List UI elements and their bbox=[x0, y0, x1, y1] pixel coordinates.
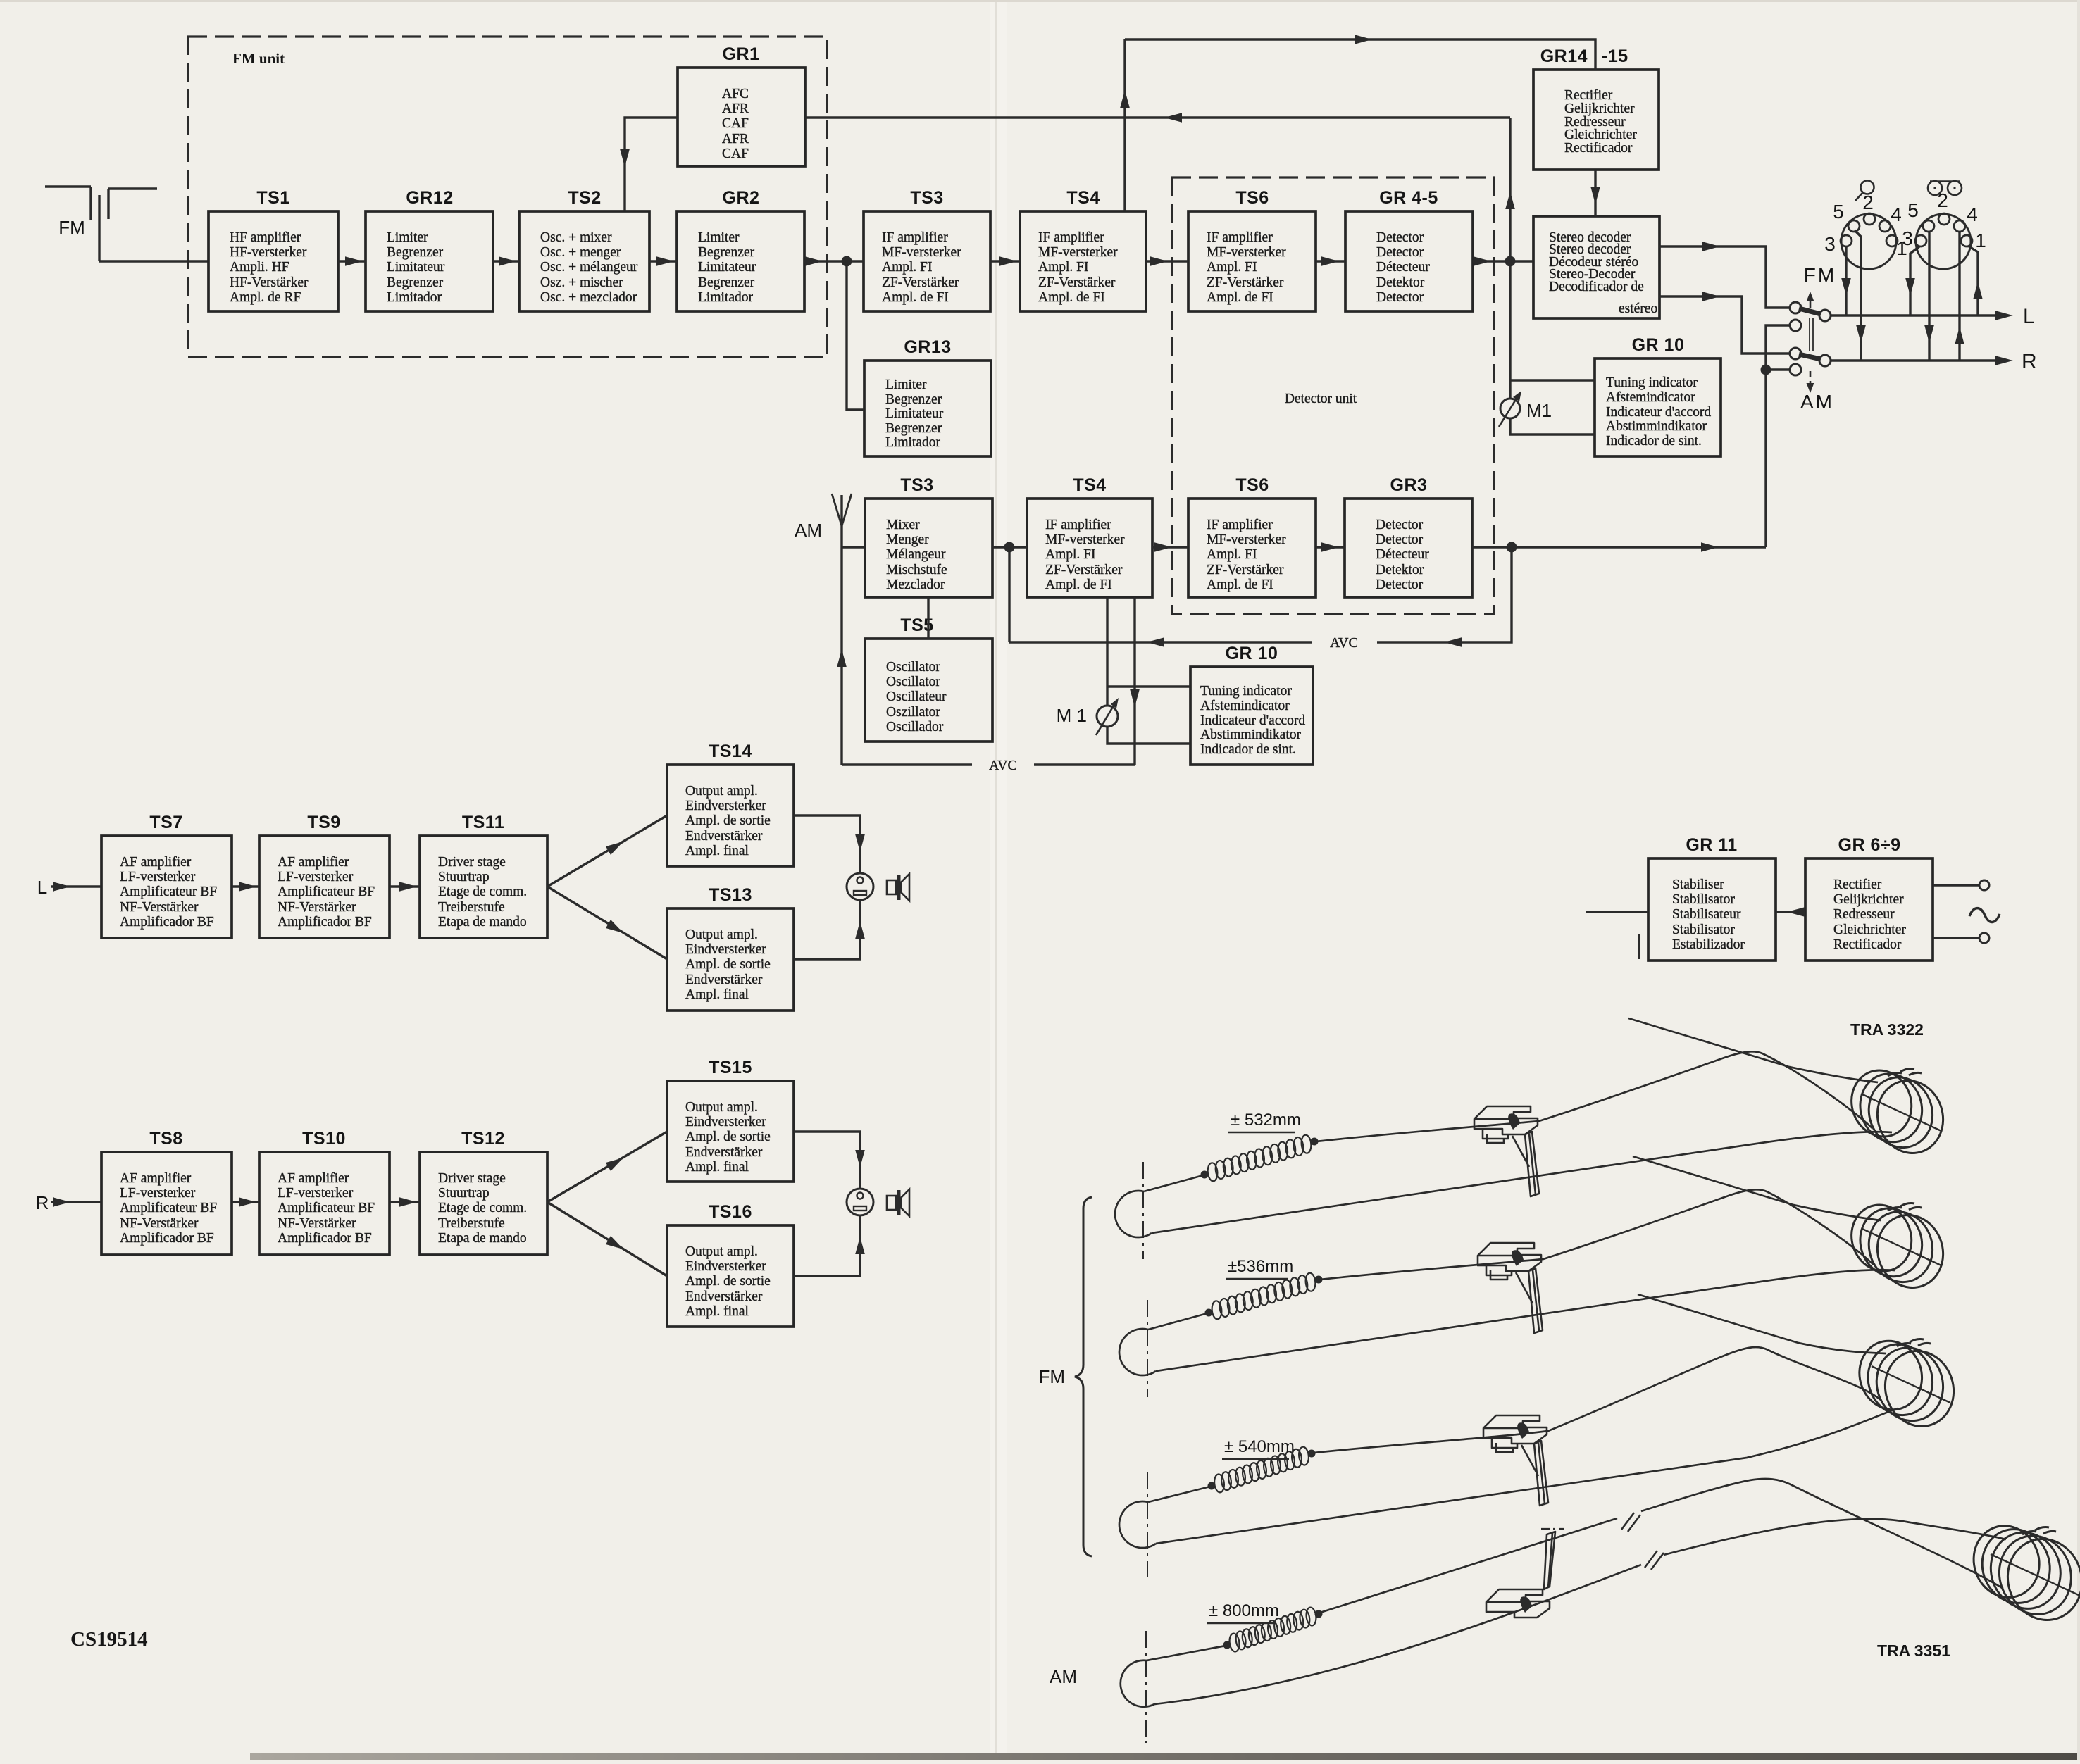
phono pickup icon bbox=[1855, 181, 1874, 201]
block TS5 bbox=[865, 615, 992, 742]
svg-text:HF amplifier: HF amplifier bbox=[230, 230, 301, 245]
Detector unit dashed enclosure bbox=[1172, 177, 1494, 614]
wire stereo decoder R output to switch bbox=[1659, 292, 1791, 354]
R input bbox=[36, 1192, 101, 1213]
antenna 2 (536mm) wire loop end bbox=[1119, 1329, 1156, 1375]
svg-text:Limitateur: Limitateur bbox=[387, 260, 445, 275]
svg-text:Gleichrichter: Gleichrichter bbox=[1833, 922, 1906, 937]
svg-text:Estabilizador: Estabilizador bbox=[1672, 937, 1745, 952]
svg-text:Osc. + mélangeur: Osc. + mélangeur bbox=[540, 260, 638, 275]
svg-text:Ampl. FI: Ampl. FI bbox=[1207, 547, 1257, 562]
antenna 2 (536mm) centre line bbox=[1147, 1300, 1148, 1397]
wire GR12 to TS2 bbox=[493, 256, 519, 266]
svg-text:AFC: AFC bbox=[722, 87, 749, 101]
svg-text:Detector: Detector bbox=[1376, 230, 1424, 245]
FM/AM mode switch bbox=[1790, 264, 1836, 413]
svg-text:Ampl. de FI: Ampl. de FI bbox=[1207, 577, 1273, 592]
svg-text:Stabilisator: Stabilisator bbox=[1672, 892, 1735, 907]
svg-text:AFR: AFR bbox=[722, 132, 749, 146]
wire TS7 to TS9 bbox=[232, 882, 259, 892]
svg-text:3: 3 bbox=[1824, 233, 1836, 255]
wire TS12 to TS16 bbox=[547, 1202, 667, 1276]
svg-text:CAF: CAF bbox=[722, 146, 749, 161]
svg-text:AVC: AVC bbox=[1330, 635, 1358, 651]
svg-text:Begrenzer: Begrenzer bbox=[885, 421, 942, 436]
wire GR3 output with node bbox=[1472, 542, 1766, 553]
svg-text:GR 4-5: GR 4-5 bbox=[1379, 188, 1438, 208]
svg-text:FM: FM bbox=[1804, 264, 1836, 286]
svg-text:Begrenzer: Begrenzer bbox=[387, 275, 444, 290]
block GR3 bbox=[1345, 475, 1472, 597]
svg-text:Ampl. final: Ampl. final bbox=[685, 844, 749, 858]
svg-text:Etage de comm.: Etage de comm. bbox=[438, 1201, 527, 1215]
block TS13 bbox=[667, 885, 794, 1011]
svg-text:TS6: TS6 bbox=[1235, 188, 1269, 208]
svg-text:LF-versterker: LF-versterker bbox=[120, 870, 196, 884]
wires M1 to GR10 FM bbox=[1510, 380, 1595, 434]
svg-text:NF-Verstärker: NF-Verstärker bbox=[120, 1216, 199, 1231]
svg-text:Ampl. FI: Ampl. FI bbox=[1207, 260, 1257, 275]
AFC feedback line to GR1 bbox=[805, 113, 1515, 261]
svg-text:TS8: TS8 bbox=[149, 1129, 182, 1149]
svg-text:TS7: TS7 bbox=[149, 813, 182, 832]
svg-text:Output ampl.: Output ampl. bbox=[685, 784, 758, 799]
block GR2 bbox=[677, 188, 804, 311]
svg-text:Ampl. FI: Ampl. FI bbox=[882, 260, 933, 275]
svg-text:IF amplifier: IF amplifier bbox=[882, 230, 948, 245]
svg-text:Oszillator: Oszillator bbox=[886, 705, 940, 720]
wire TS8 to TS10 bbox=[232, 1197, 259, 1207]
wire TS3 to TS4 AM with junction bbox=[992, 542, 1027, 553]
svg-text:Begrenzer: Begrenzer bbox=[387, 245, 444, 260]
svg-text:Treiberstufe: Treiberstufe bbox=[438, 1216, 505, 1231]
svg-text:Gelijkrichter: Gelijkrichter bbox=[1833, 892, 1904, 907]
svg-text:Ampl. de RF: Ampl. de RF bbox=[230, 290, 301, 305]
svg-text:TRA 3351: TRA 3351 bbox=[1877, 1641, 1950, 1660]
svg-text:±536mm: ±536mm bbox=[1228, 1257, 1293, 1276]
svg-text:Treiberstufe: Treiberstufe bbox=[438, 900, 505, 915]
page fold crease bbox=[990, 0, 1007, 1760]
svg-text:AVC: AVC bbox=[989, 758, 1017, 773]
svg-text:Limitador: Limitador bbox=[885, 435, 940, 450]
svg-text:HF-Verstärker: HF-Verstärker bbox=[230, 275, 309, 290]
svg-text:TS1: TS1 bbox=[256, 188, 289, 208]
svg-text:Rectificador: Rectificador bbox=[1833, 937, 1902, 952]
svg-text:Rectifier: Rectifier bbox=[1564, 88, 1613, 103]
svg-text:TS14: TS14 bbox=[709, 742, 752, 761]
svg-text:Osc. + mezclador: Osc. + mezclador bbox=[540, 290, 637, 305]
svg-text:MF-versterker: MF-versterker bbox=[882, 245, 961, 260]
svg-text:GR13: GR13 bbox=[904, 337, 951, 357]
label ± 800mm bbox=[1207, 1601, 1279, 1623]
svg-text:Ampl. de FI: Ampl. de FI bbox=[1207, 290, 1273, 305]
svg-text:IF amplifier: IF amplifier bbox=[1038, 230, 1104, 245]
svg-text:Endverstärker: Endverstärker bbox=[685, 829, 763, 844]
svg-text:TS4: TS4 bbox=[1066, 188, 1100, 208]
svg-text:Limitador: Limitador bbox=[698, 290, 753, 305]
svg-text:± 532mm: ± 532mm bbox=[1231, 1111, 1301, 1130]
svg-text:GR 10: GR 10 bbox=[1226, 644, 1278, 663]
svg-text:Limitador: Limitador bbox=[387, 290, 442, 305]
svg-text:Ampl. final: Ampl. final bbox=[685, 987, 749, 1002]
svg-text:Abstimmindikator: Abstimmindikator bbox=[1606, 419, 1707, 434]
svg-text:Rectificador: Rectificador bbox=[1564, 141, 1633, 156]
svg-text:ZF-Verstärker: ZF-Verstärker bbox=[1038, 275, 1116, 290]
svg-text:TS6: TS6 bbox=[1235, 475, 1269, 495]
svg-text:CAF: CAF bbox=[722, 116, 749, 131]
block TS15 bbox=[667, 1058, 794, 1182]
svg-text:AF amplifier: AF amplifier bbox=[278, 855, 349, 870]
DIN connector 2 (tape) bbox=[1902, 189, 1986, 269]
antenna 1 (532mm) upper wire with spring bbox=[1144, 1051, 1872, 1191]
svg-text:Begrenzer: Begrenzer bbox=[698, 245, 755, 260]
svg-text:L: L bbox=[2023, 305, 2035, 328]
svg-text:Detector: Detector bbox=[1376, 290, 1424, 305]
svg-text:Limitateur: Limitateur bbox=[885, 406, 944, 421]
wire GR14-15 down to stereo decoder bbox=[1590, 170, 1600, 216]
svg-text:TS10: TS10 bbox=[302, 1129, 346, 1149]
wire TS1 to GR12 bbox=[338, 256, 366, 266]
svg-text:4: 4 bbox=[1967, 204, 1978, 225]
block GR11 stabiliser bbox=[1648, 835, 1776, 961]
svg-text:ZF-Verstärker: ZF-Verstärker bbox=[1045, 563, 1123, 577]
wire FM antenna to TS1 bbox=[99, 260, 208, 262]
svg-text:Etapa de mando: Etapa de mando bbox=[438, 1231, 527, 1246]
wire AM detector to switch contacts bbox=[1761, 325, 1791, 547]
svg-text:AM: AM bbox=[1050, 1666, 1077, 1687]
svg-text:Stabilisateur: Stabilisateur bbox=[1672, 907, 1741, 922]
L output line bbox=[1830, 305, 2035, 328]
svg-text:AF amplifier: AF amplifier bbox=[120, 1171, 192, 1186]
antenna 4 (800mm) tension clip bbox=[1486, 1529, 1564, 1618]
wire R to tape pin4 bbox=[1955, 231, 1964, 361]
svg-text:Endverstärker: Endverstärker bbox=[685, 1289, 763, 1304]
svg-text:IF amplifier: IF amplifier bbox=[1207, 518, 1273, 532]
svg-text:TS3: TS3 bbox=[900, 475, 933, 495]
block TS14 bbox=[667, 742, 794, 866]
antenna 1 (532mm) lower wire bbox=[1152, 1132, 1892, 1233]
right page edge bbox=[2077, 0, 2080, 1760]
loudspeaker icon L bbox=[887, 874, 909, 901]
svg-text:Gleichrichter: Gleichrichter bbox=[1564, 127, 1637, 142]
speaker jack L bbox=[847, 873, 873, 900]
svg-text:Stuurtrap: Stuurtrap bbox=[438, 1186, 490, 1201]
svg-text:Eindversterker: Eindversterker bbox=[685, 1259, 766, 1274]
antenna 1 (532mm) tension clip bbox=[1474, 1106, 1539, 1196]
svg-text:Etage de comm.: Etage de comm. bbox=[438, 884, 527, 899]
antenna 2 (536mm) tension clip bbox=[1478, 1243, 1543, 1333]
svg-text:GR 10: GR 10 bbox=[1632, 335, 1685, 355]
svg-text:3: 3 bbox=[1902, 227, 1913, 249]
svg-text:Output ampl.: Output ampl. bbox=[685, 1244, 758, 1259]
wire TS12 to TS15 bbox=[547, 1132, 667, 1202]
svg-text:NF-Verstärker: NF-Verstärker bbox=[278, 1216, 356, 1231]
svg-text:NF-Verstärker: NF-Verstärker bbox=[278, 900, 356, 915]
svg-text:Stabilisator: Stabilisator bbox=[1672, 922, 1735, 937]
svg-text:Indicador de sint.: Indicador de sint. bbox=[1200, 742, 1296, 757]
block TS4 FM bbox=[1020, 188, 1146, 311]
block TS11 bbox=[420, 813, 547, 938]
svg-text:LF-versterker: LF-versterker bbox=[278, 1186, 354, 1201]
block GR4-5 bbox=[1345, 188, 1473, 311]
antenna 4 (800mm) lower wire bbox=[1154, 1565, 1641, 1704]
svg-text:ZF-Verstärker: ZF-Verstärker bbox=[882, 275, 959, 290]
svg-text:Amplificateur BF: Amplificateur BF bbox=[278, 1201, 375, 1215]
svg-text:ZF-Verstärker: ZF-Verstärker bbox=[1207, 275, 1284, 290]
wire tape pin3 to L bbox=[1905, 246, 1919, 315]
svg-text:2: 2 bbox=[1937, 189, 1948, 211]
svg-text:Amplificador BF: Amplificador BF bbox=[120, 915, 214, 930]
antenna 4 (800mm) coil bbox=[1964, 1518, 2080, 1630]
block TS16 bbox=[667, 1202, 794, 1327]
block GR1 bbox=[678, 44, 805, 166]
svg-text:AM: AM bbox=[795, 520, 822, 541]
wire TS6 to GR3 AM bbox=[1316, 542, 1345, 552]
FM group brace bbox=[1038, 1197, 1092, 1556]
svg-text:Redresseur: Redresseur bbox=[1833, 907, 1895, 922]
svg-text:Mélangeur: Mélangeur bbox=[886, 547, 946, 562]
svg-text:Detector: Detector bbox=[1376, 532, 1424, 547]
svg-text:2: 2 bbox=[1862, 192, 1874, 213]
svg-text:Ampl. de FI: Ampl. de FI bbox=[1038, 290, 1105, 305]
svg-text:± 540mm: ± 540mm bbox=[1224, 1437, 1295, 1456]
block TS6 FM bbox=[1188, 188, 1316, 311]
svg-text:Ampl. de FI: Ampl. de FI bbox=[882, 290, 949, 305]
label ± 532mm bbox=[1228, 1111, 1301, 1132]
svg-text:± 800mm: ± 800mm bbox=[1209, 1601, 1279, 1620]
svg-text:Oscillator: Oscillator bbox=[886, 660, 940, 675]
AVC2 line lower bbox=[842, 758, 1135, 773]
top line to GR14-15 bbox=[1125, 35, 1595, 70]
svg-text:TS3: TS3 bbox=[910, 188, 943, 208]
svg-text:Ampl. de sortie: Ampl. de sortie bbox=[685, 957, 771, 972]
svg-text:GR3: GR3 bbox=[1390, 475, 1428, 495]
antenna 4 (800mm) wire break marks bbox=[1621, 1513, 1664, 1570]
svg-text:LF-versterker: LF-versterker bbox=[278, 870, 354, 884]
svg-text:MF-versterker: MF-versterker bbox=[1207, 245, 1286, 260]
svg-text:TS4: TS4 bbox=[1073, 475, 1106, 495]
block TS4 AM bbox=[1027, 475, 1152, 597]
block TS1 bbox=[208, 188, 338, 311]
wire TS4 to TS6 AM bbox=[1152, 542, 1188, 552]
svg-text:Amplificateur BF: Amplificateur BF bbox=[120, 1201, 217, 1215]
block stereo decoder bbox=[1533, 216, 1659, 318]
wire tape pin5 to R bbox=[1924, 231, 1934, 361]
label ± 540mm bbox=[1222, 1437, 1295, 1459]
wire TS3 to TS4 bbox=[990, 256, 1020, 266]
svg-text:IF amplifier: IF amplifier bbox=[1045, 518, 1111, 532]
wire stereo decoder L output to switch bbox=[1659, 242, 1791, 308]
svg-text:Ampl. de sortie: Ampl. de sortie bbox=[685, 1130, 771, 1144]
svg-text:MF-versterker: MF-versterker bbox=[1045, 532, 1125, 547]
wire AM antenna to TS3 bbox=[842, 546, 865, 548]
wire TS14 to speaker L bbox=[794, 815, 865, 873]
svg-text:IF amplifier: IF amplifier bbox=[1207, 230, 1273, 245]
svg-text:Oscillateur: Oscillateur bbox=[886, 689, 947, 704]
svg-text:4: 4 bbox=[1891, 204, 1902, 225]
svg-text:Détecteur: Détecteur bbox=[1376, 260, 1430, 275]
block GR10 AM tuning indicator bbox=[1190, 644, 1313, 765]
antenna 4 (800mm) twist line to coil top bbox=[1664, 1519, 2006, 1555]
svg-text:TS15: TS15 bbox=[709, 1058, 752, 1077]
antenna 4 (800mm) centre line bbox=[1145, 1631, 1147, 1743]
svg-text:TS2: TS2 bbox=[568, 188, 601, 208]
svg-text:TS13: TS13 bbox=[709, 885, 752, 905]
svg-text:Driver stage: Driver stage bbox=[438, 1171, 506, 1186]
svg-text:MF-versterker: MF-versterker bbox=[1038, 245, 1118, 260]
svg-text:Limitateur: Limitateur bbox=[698, 260, 756, 275]
block GR12 bbox=[366, 188, 493, 311]
block TS3 FM bbox=[864, 188, 990, 311]
block TS10 bbox=[259, 1129, 390, 1255]
svg-text:Indicador de sint.: Indicador de sint. bbox=[1606, 434, 1702, 449]
svg-text:AFR: AFR bbox=[722, 101, 749, 116]
wire TS4 up to top line bbox=[1120, 39, 1130, 211]
svg-text:Amplificador BF: Amplificador BF bbox=[278, 1231, 372, 1246]
wire TS11 to TS14 bbox=[547, 815, 667, 887]
bottom page edge shadow bbox=[250, 1753, 2080, 1760]
wire phono pin3 to L bbox=[1841, 246, 1851, 315]
wire TS2 to GR2 bbox=[649, 256, 677, 266]
svg-text:Endverstärker: Endverstärker bbox=[685, 972, 763, 987]
svg-text:GR12: GR12 bbox=[406, 188, 453, 208]
wire TS13 to speaker L bbox=[794, 900, 865, 959]
AM antenna bbox=[795, 494, 852, 765]
wire TS4 to TS6 bbox=[1146, 256, 1188, 266]
svg-text:Ampli. HF: Ampli. HF bbox=[230, 260, 289, 275]
svg-text:Amplificateur BF: Amplificateur BF bbox=[120, 884, 217, 899]
top page edge bbox=[0, 0, 2080, 2]
svg-text:Ampl. final: Ampl. final bbox=[685, 1304, 749, 1319]
svg-text:FM: FM bbox=[1038, 1366, 1065, 1387]
wire GR2 to TS3 with junction bbox=[804, 256, 864, 267]
antenna 2 (536mm) upper wire with spring bbox=[1148, 1189, 1874, 1330]
svg-text:R: R bbox=[2022, 350, 2037, 373]
AVC line from GR3 node bbox=[1009, 547, 1512, 651]
svg-text:Mezclador: Mezclador bbox=[886, 577, 945, 592]
wire phono pin5 to R bbox=[1855, 230, 1866, 361]
svg-text:Amplificador BF: Amplificador BF bbox=[278, 915, 372, 930]
antenna 3 (540mm) twist line to coil top bbox=[1638, 1294, 1886, 1353]
svg-text:Ampl. FI: Ampl. FI bbox=[1038, 260, 1089, 275]
svg-text:Detector: Detector bbox=[1376, 518, 1424, 532]
block GR13 bbox=[864, 337, 991, 456]
svg-text:Gelijkrichter: Gelijkrichter bbox=[1564, 101, 1635, 116]
DIN connector 1 (phono) bbox=[1824, 192, 1907, 269]
wire TS11 to TS13 bbox=[547, 887, 667, 959]
R output line bbox=[1830, 350, 2037, 373]
svg-text:TS16: TS16 bbox=[709, 1202, 752, 1222]
antenna 1 (532mm) wire loop end bbox=[1115, 1191, 1152, 1237]
svg-text:Eindversterker: Eindversterker bbox=[685, 1115, 766, 1130]
svg-text:FM: FM bbox=[58, 217, 85, 238]
svg-text:Abstimmindikator: Abstimmindikator bbox=[1200, 727, 1302, 742]
svg-text:Driver stage: Driver stage bbox=[438, 855, 506, 870]
svg-text:Endverstärker: Endverstärker bbox=[685, 1145, 763, 1160]
svg-text:Osc. + mixer: Osc. + mixer bbox=[540, 230, 612, 245]
block TS2 bbox=[519, 188, 649, 311]
meter M1 FM bbox=[1499, 261, 1552, 427]
wire TS10 to TS12 bbox=[390, 1197, 420, 1207]
block GR6-9 rectifier bbox=[1805, 835, 1933, 961]
antenna 4 (800mm) wire loop end bbox=[1121, 1660, 1154, 1707]
svg-text:Begrenzer: Begrenzer bbox=[885, 392, 942, 407]
wire TS4 AM down to AVC2 line bbox=[1130, 597, 1140, 765]
wire TS9 to TS11 bbox=[390, 882, 420, 892]
svg-text:Ampl. de sortie: Ampl. de sortie bbox=[685, 1274, 771, 1289]
svg-text:Osc. + menger: Osc. + menger bbox=[540, 245, 621, 260]
svg-text:MF-versterker: MF-versterker bbox=[1207, 532, 1286, 547]
svg-text:5: 5 bbox=[1833, 201, 1844, 223]
svg-text:M1: M1 bbox=[1526, 400, 1552, 421]
svg-text:Output ampl.: Output ampl. bbox=[685, 927, 758, 942]
antenna 1 (532mm) coil bbox=[1843, 1063, 1953, 1162]
wire TS16 to speaker R bbox=[794, 1215, 865, 1276]
block GR10 FM tuning indicator bbox=[1595, 335, 1721, 456]
antenna 3 (540mm) coil bbox=[1850, 1333, 1963, 1436]
svg-text:LF-versterker: LF-versterker bbox=[120, 1186, 196, 1201]
svg-text:GR1: GR1 bbox=[723, 44, 760, 64]
svg-text:estéreo: estéreo bbox=[1619, 301, 1657, 316]
svg-text:Limiter: Limiter bbox=[387, 230, 428, 245]
speaker jack R bbox=[847, 1189, 873, 1215]
svg-text:Eindversterker: Eindversterker bbox=[685, 942, 766, 957]
wire TS6 to GR4-5 bbox=[1316, 256, 1345, 266]
svg-text:5: 5 bbox=[1907, 199, 1919, 221]
svg-text:Indicateur d'accord: Indicateur d'accord bbox=[1606, 405, 1711, 420]
svg-text:GR 6÷9: GR 6÷9 bbox=[1838, 835, 1901, 855]
wire TS15 to speaker R bbox=[794, 1132, 865, 1189]
svg-text:Etapa de mando: Etapa de mando bbox=[438, 915, 527, 930]
svg-text:Mixer: Mixer bbox=[886, 518, 920, 532]
AC input terminals bbox=[1933, 880, 2000, 943]
svg-text:NF-Verstärker: NF-Verstärker bbox=[120, 900, 199, 915]
svg-text:GR14: GR14 bbox=[1540, 46, 1588, 66]
svg-text:Detektor: Detektor bbox=[1376, 275, 1425, 290]
svg-text:GR2: GR2 bbox=[723, 188, 760, 208]
svg-text:TS9: TS9 bbox=[307, 813, 340, 832]
antenna 1 (532mm) twist line to coil top bbox=[1628, 1018, 1878, 1082]
svg-text:Ampl. FI: Ampl. FI bbox=[1045, 547, 1096, 562]
tape recorder icon bbox=[1928, 181, 1962, 195]
svg-text:L: L bbox=[37, 877, 47, 898]
wire TS3 down to TS5 bbox=[927, 597, 929, 639]
antenna 2 (536mm) lower wire bbox=[1156, 1270, 1895, 1371]
antenna 3 (540mm) tension clip bbox=[1483, 1415, 1548, 1506]
svg-text:Stabiliser: Stabiliser bbox=[1672, 877, 1724, 892]
block TS7 bbox=[101, 813, 232, 938]
svg-text:Oscillador: Oscillador bbox=[886, 720, 944, 734]
block TS3 AM bbox=[865, 475, 992, 597]
antenna 3 (540mm) centre line bbox=[1147, 1472, 1148, 1577]
wire junction down to GR13 bbox=[847, 261, 864, 410]
block TS6 AM bbox=[1188, 475, 1316, 597]
wire GR6-9 to GR11 bbox=[1776, 907, 1805, 917]
svg-text:1: 1 bbox=[1975, 230, 1986, 251]
wire GR4-5 to stereo decoder with node bbox=[1473, 256, 1533, 267]
svg-text:GR 11: GR 11 bbox=[1686, 835, 1737, 855]
svg-text:Indicateur d'accord: Indicateur d'accord bbox=[1200, 713, 1305, 728]
svg-text:M 1: M 1 bbox=[1057, 705, 1087, 726]
antenna 3 (540mm) wire loop end bbox=[1119, 1501, 1156, 1548]
block TS9 bbox=[259, 813, 390, 938]
wire AM junction down to AVC bbox=[1008, 547, 1010, 642]
svg-text:Detektor: Detektor bbox=[1376, 563, 1424, 577]
svg-text:-15: -15 bbox=[1602, 46, 1628, 66]
svg-text:Amplificador BF: Amplificador BF bbox=[120, 1231, 214, 1246]
svg-text:AF amplifier: AF amplifier bbox=[120, 855, 192, 870]
svg-text:CS19514: CS19514 bbox=[70, 1628, 148, 1651]
